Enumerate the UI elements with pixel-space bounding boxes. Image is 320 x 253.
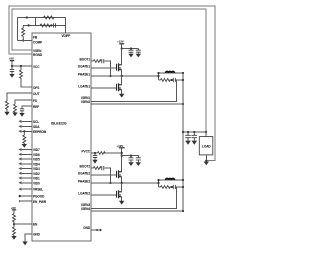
wire UGATE1 pin <box>91 67 117 69</box>
node vout-n2 <box>182 186 184 188</box>
power +12V bar phase1 <box>119 43 124 45</box>
svg-text:OUT: OUT <box>33 92 40 96</box>
capacitor C13 output <box>185 132 191 141</box>
wire VOUT sense minus loop (outer) <box>9 6 215 161</box>
transistor Q3 upper fet phase2 <box>117 170 122 178</box>
inductor L2 <box>166 178 175 180</box>
power +12V rail phase2 <box>121 148 123 172</box>
arrow VID5 <box>19 158 22 160</box>
wire L1 bottom branch <box>159 79 184 81</box>
wire VID6 pin <box>22 153 33 155</box>
node L2 right <box>182 179 184 181</box>
svg-text:VID2: VID2 <box>33 172 40 176</box>
wire phase2 fet source <box>121 177 123 183</box>
node load-top <box>205 131 207 133</box>
wire PHASE1 pin <box>91 75 159 77</box>
capacitor C7 sense phase1 <box>173 78 175 82</box>
svg-text:FS: FS <box>33 99 37 103</box>
capacitor C6 <box>136 50 141 54</box>
wire GND pin <box>25 234 32 242</box>
node comp-b <box>28 24 30 26</box>
arrow VRSEL <box>19 188 22 190</box>
node L2 left <box>157 179 159 181</box>
node vout-bus <box>182 131 184 133</box>
svg-text:PGOOD: PGOOD <box>33 195 45 199</box>
svg-text:PHASE1: PHASE1 <box>78 72 90 76</box>
svg-text:VID4: VID4 <box>33 162 40 166</box>
svg-text:PVCC: PVCC <box>82 149 91 153</box>
inductor L2 network left vertical <box>158 180 160 187</box>
svg-text:VID7: VID7 <box>33 148 40 152</box>
ground under R9 <box>11 236 16 240</box>
arrow VID6 <box>19 153 22 155</box>
ground under R7 <box>22 144 27 148</box>
svg-text:SCL: SCL <box>33 120 39 124</box>
resistor R12 <box>94 167 102 170</box>
capacitor C12 sense phase2 <box>173 185 175 189</box>
tick EN_PWR <box>19 200 21 202</box>
wire load top stem <box>205 132 207 137</box>
node isen4 <box>182 210 184 212</box>
svg-text:+12V: +12V <box>117 40 124 44</box>
wire GND pin right <box>91 229 97 231</box>
svg-text:LGATE2: LGATE2 <box>78 191 90 195</box>
capacitor C10 <box>136 158 141 162</box>
wire L2 bottom branch <box>159 186 184 188</box>
power +12V bar phase2 <box>119 147 125 149</box>
wire BOOT2 pin <box>91 168 111 183</box>
node eeprom <box>23 130 25 132</box>
ground under C14 <box>192 141 198 145</box>
node load-gnd <box>205 160 207 162</box>
resistor R2 <box>40 24 50 27</box>
svg-text:SDA: SDA <box>33 125 40 129</box>
ground q2 <box>119 94 124 98</box>
resistor R13 <box>161 79 171 82</box>
ground under C8 <box>92 160 97 164</box>
ground under load <box>204 162 209 166</box>
wire REF pin <box>22 106 32 109</box>
node dec1 <box>130 47 132 49</box>
arrow EEPROM <box>19 130 22 132</box>
wire VOUT sense plus loop (inner) <box>12 9 206 132</box>
ground under R5 <box>4 112 9 116</box>
node dec2 <box>130 155 132 157</box>
ground under C6 <box>136 54 141 58</box>
op-amp U1 ISL6322G body <box>32 33 91 241</box>
svg-text:VID5: VID5 <box>33 158 40 162</box>
svg-text:EN: EN <box>33 223 38 227</box>
node boot2-phase <box>109 182 111 184</box>
wire ISEN2 pin <box>91 103 183 105</box>
svg-text:VCC: VCC <box>33 65 40 69</box>
arrow VID2 <box>19 172 22 174</box>
ground GND pin <box>22 242 27 246</box>
svg-text:PHASE2: PHASE2 <box>78 179 90 183</box>
wire LGATE2 pin <box>91 194 117 196</box>
wire LGATE1 pin <box>91 87 117 89</box>
svg-text:VID1: VID1 <box>33 177 40 181</box>
node ofs-r <box>20 65 22 67</box>
wire COMP pin <box>17 40 32 42</box>
wire q4 source <box>121 197 123 201</box>
resistor R9 <box>13 224 16 236</box>
wire load bottom stem <box>205 155 207 161</box>
wire SCL pin <box>22 120 33 122</box>
svg-text:VRSEL: VRSEL <box>33 188 43 192</box>
svg-text:ISEN4: ISEN4 <box>81 207 90 211</box>
svg-text:OFS: OFS <box>33 86 39 90</box>
capacitor C11 boot2 <box>102 166 104 170</box>
ground under C3 <box>19 113 24 117</box>
wire comp bottom branch <box>23 24 65 26</box>
wire EN pin <box>14 223 32 225</box>
node 12v-2 <box>121 155 123 157</box>
wire VID0 pin <box>22 182 33 184</box>
resistor R7 <box>23 131 26 144</box>
svg-text:REF: REF <box>33 105 39 109</box>
svg-text:+5V: +5V <box>9 57 14 61</box>
svg-text:+5V: +5V <box>11 206 16 210</box>
node pgood <box>19 195 21 197</box>
svg-text:+12V: +12V <box>117 144 124 148</box>
ground under C9 <box>128 162 133 166</box>
wire q2 drain <box>121 76 123 85</box>
node phase2-net <box>157 182 159 184</box>
svg-text:BOOT2: BOOT2 <box>80 164 91 168</box>
node comp-a <box>26 16 28 18</box>
ground q4 <box>119 201 124 205</box>
wire EN_PWR pin <box>20 200 33 202</box>
wire VID2 pin <box>22 172 33 174</box>
wire VID4 pin <box>22 163 33 165</box>
svg-text:GND: GND <box>33 233 41 237</box>
node 12v-1 <box>121 47 123 49</box>
transistor Q4 lower fet phase2 <box>117 190 122 198</box>
svg-text:BOOT1: BOOT1 <box>80 57 91 61</box>
ground under C5 <box>128 54 133 58</box>
arrow SDA <box>19 125 22 127</box>
wire q4 drain <box>121 183 123 192</box>
node pvcc-12v <box>121 152 123 154</box>
wire comp left vertical <box>16 18 18 41</box>
svg-text:UGATE1: UGATE1 <box>78 64 90 68</box>
wire output bus <box>183 131 206 133</box>
node phase2 <box>121 182 123 184</box>
wire FS pin <box>15 100 32 104</box>
node boot1-phase <box>109 75 111 77</box>
node en <box>13 223 15 225</box>
svg-text:RGND: RGND <box>33 53 43 57</box>
wire decoupling branch phase2 <box>122 156 139 158</box>
capacitor C2 <box>10 66 14 74</box>
wire ISEN1 pin <box>91 80 177 102</box>
ground under C2 <box>9 74 14 78</box>
wire L2 top branch <box>159 179 184 181</box>
wire PVCC pin <box>91 152 122 154</box>
transistor Q1 upper fet phase1 <box>117 63 122 71</box>
resistor R14 <box>161 186 171 189</box>
wire SDA pin <box>22 125 33 127</box>
capacitor C5 <box>129 50 134 54</box>
node pvcc <box>94 152 96 154</box>
transistor Q2 lower fet phase1 <box>117 83 122 91</box>
svg-text:VDIFF: VDIFF <box>62 34 71 38</box>
node L1 right <box>182 72 184 74</box>
node vcc <box>11 65 13 67</box>
svg-text:EN_PWR: EN_PWR <box>33 200 47 204</box>
wire phase1 fet source <box>121 70 123 76</box>
capacitor C1 <box>54 23 56 27</box>
svg-text:LOAD: LOAD <box>202 144 211 148</box>
wire q2 source <box>121 90 123 94</box>
capacitor C14 output <box>192 132 198 141</box>
svg-text:ISEN2: ISEN2 <box>81 100 90 104</box>
inductor L1 network left vertical <box>158 73 160 80</box>
node isen2 <box>182 103 184 105</box>
load box <box>199 137 213 155</box>
svg-text:VID0: VID0 <box>33 181 40 185</box>
svg-text:ISL6322G: ISL6322G <box>51 122 67 126</box>
resistor R5 <box>6 101 9 112</box>
arrow VID0 <box>19 182 22 184</box>
node outcap1 <box>187 131 189 133</box>
wire L1 top branch <box>159 72 184 74</box>
node vout-n1 <box>182 79 184 81</box>
wire PHASE2 pin <box>91 182 159 184</box>
arrow SCL <box>19 120 22 122</box>
capacitor C4 boot1 <box>102 59 104 63</box>
svg-text:COMP: COMP <box>33 40 43 44</box>
ground under C13 <box>185 141 191 145</box>
wire VID3 pin <box>22 168 33 170</box>
resistor R6 <box>14 104 17 113</box>
capacitor C3 <box>20 109 24 113</box>
wire PGOOD pin <box>20 195 33 197</box>
wire OUT pin <box>7 93 32 101</box>
wire decoupling branch phase1 <box>122 49 139 51</box>
svg-text:GND: GND <box>83 226 91 230</box>
wire vout vertical <box>182 73 184 211</box>
svg-text:FB: FB <box>33 35 38 39</box>
arrow VID7 <box>19 148 22 150</box>
svg-text:UGATE2: UGATE2 <box>78 171 90 175</box>
wire ISEN4 pin <box>91 210 183 212</box>
ground under R6 <box>12 113 17 117</box>
arrow gnd right <box>97 229 100 231</box>
wire VID7 pin <box>22 149 33 151</box>
node comp-c <box>50 24 52 26</box>
wire UGATE2 pin <box>91 174 117 176</box>
node outcap2 <box>193 131 195 133</box>
node gnd right <box>99 229 101 231</box>
wire VCC supply <box>12 61 32 66</box>
resistor R11 <box>98 152 106 155</box>
wire comp jog <box>35 18 37 26</box>
capacitor C8 pvcc <box>93 153 97 160</box>
wire ISEN3 pin <box>91 187 177 209</box>
wire comp right vertical to VDIFF pin <box>65 18 67 34</box>
wire VRSEL pin <box>22 188 33 190</box>
svg-text:EEPROM: EEPROM <box>33 130 47 134</box>
wire EEPROM pin <box>22 130 33 132</box>
power +5V bar <box>10 60 14 62</box>
svg-text:VID6: VID6 <box>33 153 40 157</box>
capacitor C9 <box>129 158 134 162</box>
power +5V bar 2 <box>12 209 16 211</box>
resistor R3 <box>22 25 25 40</box>
power +12V rail phase1 <box>121 44 123 65</box>
wire comp top branch <box>17 17 65 19</box>
svg-text:VID3: VID3 <box>33 167 40 171</box>
node L1 left <box>157 72 159 74</box>
wire VID1 pin <box>22 177 33 179</box>
inductor L1 <box>166 71 175 73</box>
ground under C10 <box>136 162 141 166</box>
resistor R4 <box>20 66 33 87</box>
arrow VID4 <box>19 163 22 165</box>
svg-text:LGATE1: LGATE1 <box>78 84 90 88</box>
node phase1-net <box>157 75 159 77</box>
node comp-d <box>22 39 24 41</box>
node phase1 <box>121 75 123 77</box>
resistor R10 <box>94 60 102 63</box>
node sense1 <box>171 79 173 81</box>
arrow VID3 <box>19 167 22 169</box>
node sense2 <box>171 186 173 188</box>
resistor R8 <box>13 210 16 224</box>
arrow VID1 <box>19 177 22 179</box>
wire VID5 pin <box>22 158 33 160</box>
resistor R1 <box>44 16 54 19</box>
wire BOOT1 pin <box>91 61 111 76</box>
